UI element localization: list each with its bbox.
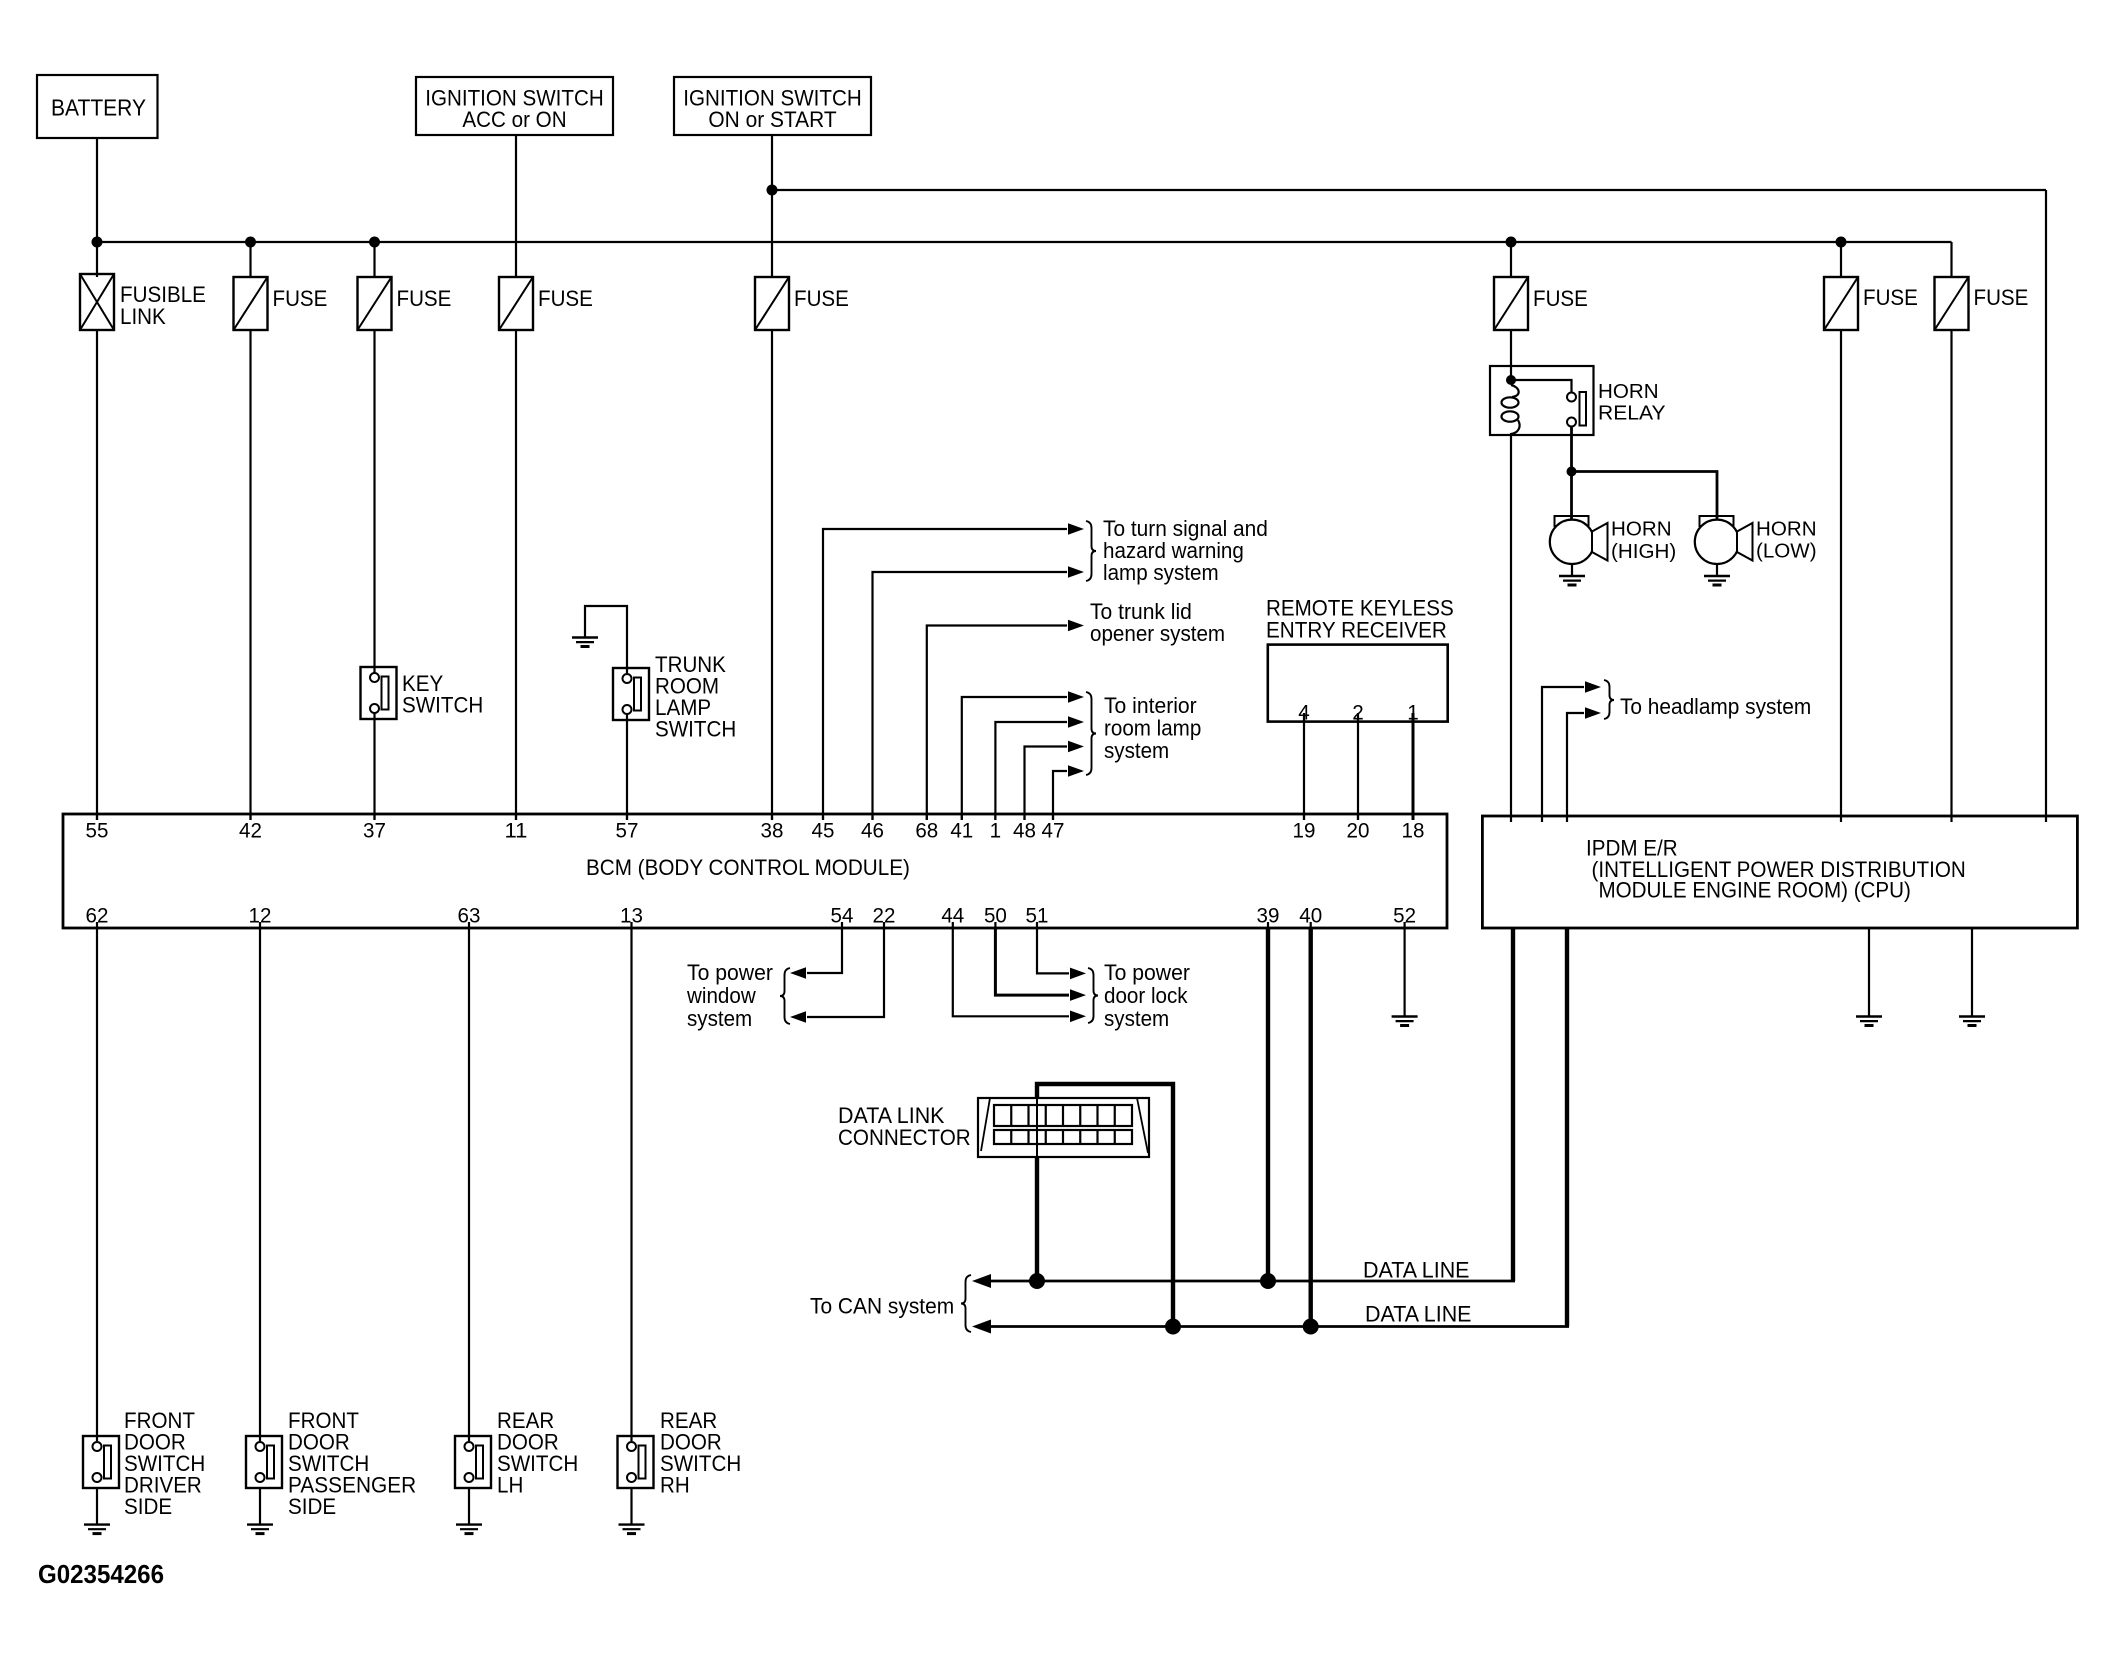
wire fuse7 to IPDM bbox=[1840, 330, 1842, 822]
svg-text:CONNECTOR: CONNECTOR bbox=[838, 1125, 971, 1150]
wire 39 data bbox=[1266, 928, 1270, 1281]
wire receiver 1 to BCM 18 bbox=[1412, 713, 1415, 820]
BCM box bbox=[63, 814, 1447, 928]
svg-text:54: 54 bbox=[831, 904, 854, 928]
wire 13 to rear door switch RH bbox=[630, 928, 632, 1441]
svg-text:68: 68 bbox=[915, 819, 938, 843]
wire headlamp arrow 1 bbox=[1542, 687, 1584, 822]
wire ACC down bbox=[515, 135, 517, 277]
wire ON feed to right bbox=[772, 189, 2046, 191]
ground front door switch passenger side bbox=[247, 1525, 273, 1534]
svg-text:62: 62 bbox=[86, 904, 109, 928]
node horns junction bbox=[1567, 467, 1577, 477]
wire front door switch driver side to ground bbox=[96, 1488, 98, 1525]
fusible link bbox=[80, 274, 114, 330]
front door switch passenger side bbox=[246, 1436, 282, 1488]
fuse F6 bbox=[1494, 277, 1528, 330]
remote keyless entry receiver box bbox=[1268, 645, 1448, 722]
node bus-fuse3 bbox=[369, 237, 380, 248]
wire front door switch passenger side to ground bbox=[259, 1488, 261, 1525]
IPDM box bbox=[1482, 816, 2077, 928]
wire 41 interior arrow bbox=[962, 697, 1067, 820]
wire junction to horn high bbox=[1570, 472, 1573, 520]
wire 63 to rear door switch LH bbox=[468, 928, 470, 1441]
svg-text:HORN: HORN bbox=[1611, 519, 1672, 541]
horn high bbox=[1555, 516, 1589, 526]
wire receiver 2 to BCM 20 bbox=[1357, 713, 1359, 820]
wire feed down right side bbox=[2045, 190, 2047, 822]
trunk room lamp switch bbox=[613, 668, 649, 720]
wire IPDM ground 1 bbox=[1868, 928, 1870, 1017]
svg-text:18: 18 bbox=[1402, 819, 1425, 843]
svg-text:37: 37 bbox=[363, 819, 386, 843]
svg-text:DATA LINE: DATA LINE bbox=[1365, 1302, 1472, 1327]
wire DLC top to CAN line 2 bbox=[1037, 1084, 1173, 1327]
data link connector bbox=[978, 1098, 1149, 1157]
ground rear door switch LH bbox=[456, 1525, 482, 1534]
svg-text:55: 55 bbox=[86, 819, 109, 843]
wire junction to horn low bbox=[1572, 472, 1718, 520]
svg-text:room lamp: room lamp bbox=[1104, 716, 1201, 741]
svg-text:40: 40 bbox=[1299, 904, 1322, 928]
svg-text:20: 20 bbox=[1347, 819, 1370, 843]
wire horn fuse to relay bbox=[1510, 330, 1512, 380]
ignition switch ACC box bbox=[416, 77, 613, 135]
svg-text:42: 42 bbox=[239, 819, 262, 843]
svg-text:HORN: HORN bbox=[1756, 519, 1817, 541]
wire fuse8 to IPDM bbox=[1950, 330, 1952, 822]
svg-text:FUSE: FUSE bbox=[397, 286, 452, 311]
wire receiver 4 to BCM 19 bbox=[1303, 713, 1305, 820]
svg-text:RELAY: RELAY bbox=[1598, 403, 1666, 425]
wire coil to IPDM bbox=[1510, 433, 1512, 822]
ground IPDM 1 bbox=[1856, 1017, 1882, 1026]
fuse F5 bbox=[755, 277, 789, 330]
node relay coil junction bbox=[1506, 375, 1516, 385]
svg-text:system: system bbox=[687, 1006, 752, 1031]
svg-text:51: 51 bbox=[1026, 904, 1049, 928]
node bus-battery bbox=[92, 237, 103, 248]
brace interior room lamp bbox=[1086, 692, 1096, 775]
wire 47 interior arrow bbox=[1053, 771, 1067, 820]
svg-text:19: 19 bbox=[1293, 819, 1316, 843]
svg-text:LH: LH bbox=[497, 1473, 523, 1498]
rear door switch RH bbox=[618, 1436, 654, 1488]
node ON feed junction bbox=[767, 185, 778, 196]
wire rear door switch RH to ground bbox=[630, 1488, 632, 1525]
key switch bbox=[361, 667, 397, 719]
svg-text:46: 46 bbox=[861, 819, 884, 843]
wire ON down bbox=[771, 135, 773, 277]
svg-text:To power: To power bbox=[687, 960, 773, 985]
CAN data line 1 bbox=[990, 1280, 1515, 1283]
fuse F2 bbox=[234, 277, 268, 330]
svg-text:SIDE: SIDE bbox=[288, 1494, 336, 1519]
CAN data line 2 bbox=[990, 1325, 1569, 1328]
wire 68 trunk lid arrow bbox=[927, 626, 1067, 821]
svg-text:47: 47 bbox=[1042, 819, 1065, 843]
wire fuse3 to key switch bbox=[373, 330, 375, 673]
svg-text:50: 50 bbox=[984, 904, 1007, 928]
svg-text:To CAN system: To CAN system bbox=[810, 1294, 954, 1319]
wire 1 interior arrow bbox=[995, 722, 1067, 820]
svg-text:FUSE: FUSE bbox=[1533, 286, 1588, 311]
wire 54 power window arrow bbox=[807, 928, 842, 973]
brace turn signal bbox=[1086, 521, 1096, 581]
svg-text:door lock: door lock bbox=[1104, 983, 1188, 1008]
ground IPDM 2 bbox=[1959, 1017, 1985, 1026]
node CAN1-39 bbox=[1260, 1273, 1276, 1289]
bus line bbox=[97, 241, 1952, 243]
svg-text:FUSE: FUSE bbox=[794, 286, 849, 311]
wire 12 to front door switch passenger bbox=[259, 928, 261, 1441]
wire IPDM data 1 bbox=[1511, 928, 1515, 1281]
wire DLC bottom to CAN line 1 bbox=[1035, 1157, 1039, 1281]
svg-text:ENTRY RECEIVER: ENTRY RECEIVER bbox=[1266, 618, 1447, 643]
front door switch driver side bbox=[83, 1436, 119, 1488]
svg-text:lamp system: lamp system bbox=[1103, 560, 1219, 585]
horn low bbox=[1700, 516, 1734, 526]
wire key switch to BCM pin 37 bbox=[373, 713, 375, 820]
svg-text:SWITCH: SWITCH bbox=[655, 717, 736, 742]
svg-text:DATA LINE: DATA LINE bbox=[1363, 1258, 1470, 1283]
fuse F7 bbox=[1824, 277, 1858, 330]
BCM top pin ticks bbox=[96, 814, 98, 820]
svg-text:FUSE: FUSE bbox=[538, 286, 593, 311]
svg-text:63: 63 bbox=[458, 904, 481, 928]
svg-text:BCM (BODY CONTROL MODULE): BCM (BODY CONTROL MODULE) bbox=[586, 855, 910, 880]
svg-text:opener system: opener system bbox=[1090, 621, 1225, 646]
wire IPDM ground 2 bbox=[1971, 928, 1973, 1017]
svg-text:LINK: LINK bbox=[120, 304, 166, 329]
brace door lock bbox=[1088, 968, 1098, 1023]
relay contact lower bbox=[1567, 418, 1576, 427]
svg-text:ACC or ON: ACC or ON bbox=[462, 107, 566, 132]
wire ground to trunk switch bbox=[585, 606, 627, 673]
svg-text:FUSE: FUSE bbox=[1974, 285, 2029, 310]
ground horn low bbox=[1704, 576, 1730, 585]
ignition switch ON box bbox=[674, 77, 871, 135]
wire relay contact branch bbox=[1511, 380, 1572, 392]
fuse F4 bbox=[499, 277, 533, 330]
svg-text:13: 13 bbox=[620, 904, 643, 928]
wire 38 to BCM bbox=[771, 330, 773, 820]
node CAN1-DLC bbox=[1029, 1273, 1045, 1289]
wire 52 ground bbox=[1403, 928, 1405, 1017]
wire 55 to BCM bbox=[96, 330, 98, 820]
wire through DLC bbox=[1036, 1098, 1038, 1157]
wire trunk switch to BCM pin 57 bbox=[626, 714, 628, 820]
wire headlamp arrow 2 bbox=[1567, 713, 1584, 822]
ground rear door switch RH bbox=[619, 1525, 645, 1534]
wire 62 to front door switch driver bbox=[96, 928, 98, 1441]
svg-text:HORN: HORN bbox=[1598, 381, 1659, 403]
svg-text:system: system bbox=[1104, 738, 1169, 763]
wire battery down bbox=[96, 138, 98, 277]
svg-text:system: system bbox=[1104, 1006, 1169, 1031]
svg-text:48: 48 bbox=[1013, 819, 1036, 843]
wire IPDM data 2 bbox=[1565, 928, 1569, 1327]
wire rear door switch LH to ground bbox=[468, 1488, 470, 1525]
svg-text:window: window bbox=[686, 983, 756, 1008]
svg-text:FUSE: FUSE bbox=[1863, 285, 1918, 310]
wire bus to fuse2 bbox=[249, 242, 251, 277]
relay armature bar bbox=[1580, 392, 1587, 426]
horn relay box bbox=[1490, 366, 1594, 435]
svg-text:41: 41 bbox=[950, 819, 973, 843]
wire 11 to BCM bbox=[515, 330, 517, 820]
fuse F8 bbox=[1935, 277, 1969, 330]
wire 22 power window arrow bbox=[807, 928, 884, 1017]
node bus-fuse2 bbox=[245, 237, 256, 248]
svg-text:To power: To power bbox=[1104, 960, 1190, 985]
svg-text:12: 12 bbox=[249, 904, 272, 928]
ground horn high bbox=[1559, 576, 1585, 585]
BCM bottom pin ticks bbox=[96, 922, 98, 928]
svg-text:SWITCH: SWITCH bbox=[402, 693, 483, 718]
ground BCM 52 bbox=[1392, 1017, 1418, 1026]
svg-text:To interior: To interior bbox=[1104, 693, 1197, 718]
svg-text:MODULE ENGINE ROOM) (CPU): MODULE ENGINE ROOM) (CPU) bbox=[1599, 878, 1911, 903]
node CAN2-40 bbox=[1303, 1319, 1319, 1335]
wire bus to horn fuse bbox=[1510, 242, 1512, 277]
svg-text:11: 11 bbox=[505, 819, 528, 843]
svg-text:FUSE: FUSE bbox=[273, 286, 328, 311]
rear door switch LH bbox=[455, 1436, 491, 1488]
svg-text:To headlamp system: To headlamp system bbox=[1620, 694, 1811, 719]
svg-text:45: 45 bbox=[812, 819, 835, 843]
svg-text:22: 22 bbox=[873, 904, 896, 928]
svg-text:(HIGH): (HIGH) bbox=[1611, 541, 1676, 563]
svg-text:RH: RH bbox=[660, 1473, 690, 1498]
node bus-horn fuse bbox=[1506, 237, 1517, 248]
ground trunk switch bbox=[572, 638, 598, 647]
svg-text:52: 52 bbox=[1393, 904, 1416, 928]
wire 40 data bbox=[1308, 928, 1312, 1327]
svg-text:1: 1 bbox=[990, 819, 1002, 843]
svg-text:BATTERY: BATTERY bbox=[51, 95, 146, 121]
svg-text:39: 39 bbox=[1257, 904, 1280, 928]
wire 45 turn signal arrow bbox=[823, 529, 1067, 820]
ground front door switch driver side bbox=[84, 1525, 110, 1534]
svg-text:G02354266: G02354266 bbox=[38, 1559, 164, 1589]
wire bus corner down bbox=[1950, 242, 1952, 277]
wire bus to fuse3 bbox=[373, 242, 375, 277]
wire 48 interior arrow bbox=[1025, 747, 1068, 821]
svg-text:38: 38 bbox=[761, 819, 784, 843]
svg-text:SIDE: SIDE bbox=[124, 1494, 172, 1519]
node bus-fuse7 bbox=[1836, 237, 1847, 248]
svg-text:ON or START: ON or START bbox=[708, 107, 836, 132]
svg-text:(LOW): (LOW) bbox=[1756, 541, 1817, 563]
svg-text:57: 57 bbox=[616, 819, 639, 843]
wire 44 door lock arrow bbox=[953, 928, 1069, 1016]
relay contact upper bbox=[1567, 393, 1576, 402]
relay coil bbox=[1511, 385, 1519, 397]
wire bus to fuse7 bbox=[1840, 242, 1842, 277]
wire 42 to BCM bbox=[249, 330, 251, 820]
fuse F3 bbox=[358, 277, 392, 330]
brace CAN bbox=[961, 1275, 971, 1332]
wire 51 door lock arrow bbox=[1037, 928, 1069, 973]
node CAN2-DLC bbox=[1165, 1319, 1181, 1335]
wire relay to horns junction bbox=[1570, 427, 1573, 472]
brace headlamp bbox=[1604, 680, 1614, 719]
wire 50 door lock arrow bbox=[995, 928, 1069, 995]
wire 46 turn signal arrow bbox=[873, 572, 1068, 820]
svg-text:44: 44 bbox=[941, 904, 964, 928]
brace power window bbox=[780, 968, 790, 1024]
battery box bbox=[37, 75, 158, 138]
